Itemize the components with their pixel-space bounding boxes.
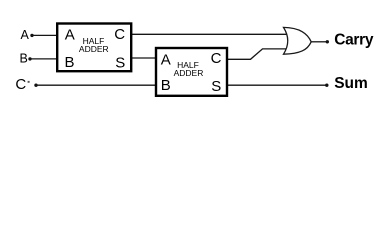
wire half adder 2 S output to Sum node — [227, 84, 326, 86]
node C subscript mark — [28, 81, 30, 83]
svg-text:B: B — [20, 52, 28, 66]
wire C to half adder 2 B input — [36, 84, 156, 86]
svg-text:B: B — [161, 77, 171, 94]
wire B to half adder 1 — [30, 58, 57, 60]
svg-text:Sum: Sum — [334, 75, 368, 92]
node Carry terminal dot — [326, 40, 329, 43]
node B terminal dot — [28, 57, 31, 60]
OR gate U3 — [284, 27, 312, 54]
node A terminal dot — [30, 34, 33, 37]
wire half adder 1 S output to half adder 2 A input — [132, 57, 156, 59]
wire A to half adder 1 — [32, 34, 57, 36]
node Sum terminal dot — [325, 84, 328, 87]
svg-text:C: C — [15, 76, 26, 93]
svg-text:ADDER: ADDER — [79, 44, 109, 54]
wire OR gate output to Carry node — [311, 41, 326, 43]
svg-text:Carry: Carry — [334, 31, 374, 48]
svg-text:A: A — [65, 27, 75, 44]
svg-text:S: S — [115, 54, 125, 71]
node C terminal dot — [34, 84, 37, 87]
half adder U2 — [156, 48, 227, 96]
svg-text:S: S — [211, 78, 221, 95]
svg-text:B: B — [65, 54, 75, 71]
wire half adder 2 C output to OR gate bottom input — [227, 49, 289, 59]
svg-text:ADDER: ADDER — [174, 68, 204, 78]
svg-text:C: C — [114, 26, 125, 43]
half adder U1 — [57, 24, 131, 72]
wire half adder 1 C output to OR gate top input — [132, 33, 289, 35]
svg-text:A: A — [161, 52, 171, 69]
svg-text:C: C — [211, 50, 222, 67]
svg-text:A: A — [21, 28, 30, 42]
